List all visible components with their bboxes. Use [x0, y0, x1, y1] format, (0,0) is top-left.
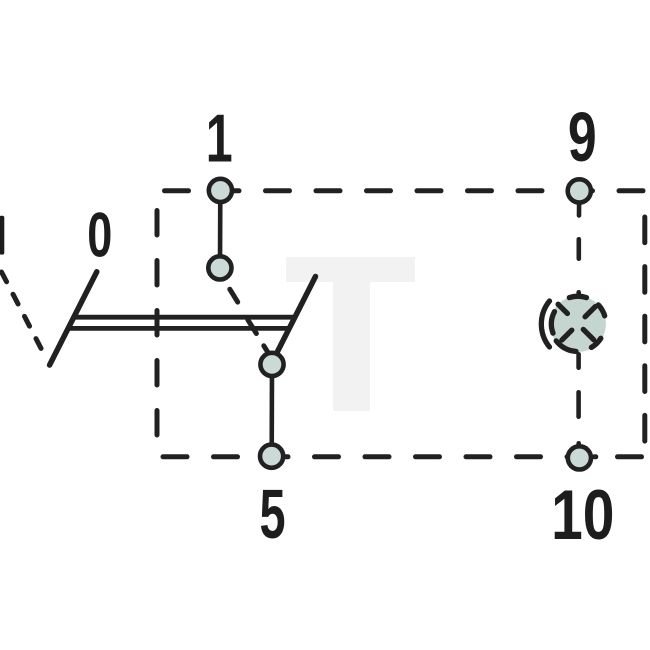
lamp body — [550, 296, 606, 352]
dashed contact path segment 1 — [230, 289, 238, 302]
watermark T — [286, 257, 415, 411]
lamp rim arc lower right — [591, 338, 600, 347]
moving contact node — [260, 353, 283, 376]
dashed lamp wire segment C — [576, 354, 581, 367]
enclosure dashed border top — [165, 188, 650, 193]
svg-text:5: 5 — [260, 475, 286, 554]
wire stub below terminal 9 — [577, 192, 582, 216]
position 1 pointer (clipped digit) — [0, 216, 4, 255]
coupling bar lower — [68, 326, 290, 331]
svg-text:1: 1 — [206, 102, 233, 177]
lamp cross arm NW — [558, 304, 567, 313]
dashed lamp wire segment A — [576, 239, 581, 258]
lamp cross arm SE — [583, 329, 593, 339]
lamp rim arc top — [569, 296, 586, 297]
fixed contact node — [208, 256, 231, 279]
enclosure dashed border right — [642, 217, 647, 451]
actuator lever (position 0) — [50, 272, 97, 365]
lamp rim arc left — [551, 312, 554, 334]
lamp outer left arc — [541, 301, 549, 347]
wire moving contact to terminal 5 — [269, 366, 274, 454]
dashed lever position line — [2, 272, 46, 356]
dashed contact path segment 2 — [248, 320, 257, 334]
coupling bar upper — [74, 315, 296, 320]
dash nub right of terminal 10 — [595, 454, 596, 459]
terminal 1 contact circle — [209, 179, 232, 202]
svg-text:9: 9 — [568, 99, 597, 177]
lamp cross arm SW — [562, 330, 572, 340]
lamp rim arc bottom — [556, 341, 576, 352]
dashed lamp wire segment D — [576, 392, 581, 416]
enclosure dashed border left — [155, 211, 160, 457]
dashed lamp wire segment B — [576, 292, 581, 307]
terminal 5 contact circle — [260, 445, 283, 468]
terminal 9 contact circle — [568, 179, 591, 202]
wire terminal 1 to fixed contact — [218, 192, 223, 266]
enclosure dashed border bottom — [163, 454, 650, 459]
lamp rim arc upper right — [598, 305, 604, 316]
dashed lamp wire segment E — [576, 443, 581, 458]
switch blade lever — [276, 277, 316, 355]
svg-text:0: 0 — [87, 199, 112, 270]
dashed contact path segment 3 — [264, 346, 269, 354]
svg-text:10: 10 — [551, 475, 614, 554]
lamp cross arm NE — [585, 307, 595, 317]
terminal 10 contact circle — [568, 446, 591, 469]
